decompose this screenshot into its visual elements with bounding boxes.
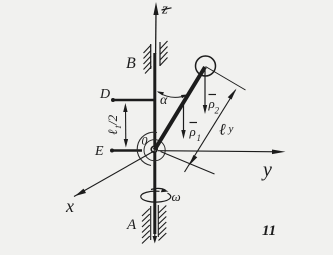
svg-text:/2: /2 xyxy=(105,114,120,126)
bearing B left wall xyxy=(150,44,152,69)
y-axis xyxy=(158,150,286,155)
pivot outer arc xyxy=(137,132,157,165)
vector rho1 xyxy=(181,101,185,139)
rod OE (thick horizontal at E) xyxy=(110,149,142,153)
extension line from O xyxy=(161,152,215,175)
figure number 11 xyxy=(262,223,276,239)
label z xyxy=(161,2,172,18)
dimension l1/2 vertical double arrow xyxy=(123,103,128,148)
label x xyxy=(65,196,74,216)
svg-text:A: A xyxy=(126,217,137,233)
rod OD (thick horizontal at D) xyxy=(111,98,156,102)
label A xyxy=(126,217,137,233)
bearing A left hatching xyxy=(142,209,150,244)
svg-text:ρ: ρ xyxy=(189,124,196,139)
label E xyxy=(94,144,104,159)
bearing B right wall xyxy=(159,42,161,66)
bearing A right hatching xyxy=(159,206,167,241)
svg-text:B: B xyxy=(126,55,136,72)
bearing A right sleeve line xyxy=(157,205,159,237)
svg-text:1: 1 xyxy=(197,133,202,143)
shaft AB (thick vertical) xyxy=(153,53,156,234)
omega arrow hook xyxy=(151,188,169,192)
svg-text:2: 2 xyxy=(215,106,220,116)
bearing B right hatching xyxy=(160,41,168,66)
label l1 (diagonal dimension) xyxy=(219,122,234,139)
label rho1 with bar xyxy=(189,123,202,144)
bearing B left hatching xyxy=(144,45,152,74)
label B xyxy=(126,55,136,72)
svg-text:x: x xyxy=(65,196,74,216)
omega rotation ellipse xyxy=(141,191,171,202)
z-axis arrowhead xyxy=(153,2,158,15)
svg-text:ω: ω xyxy=(172,189,181,204)
label O xyxy=(142,134,148,148)
angle alpha arc with arrows xyxy=(157,91,189,98)
bearing A left sleeve line xyxy=(150,206,152,240)
svg-text:y: y xyxy=(228,123,234,135)
label rho2 with bar xyxy=(208,95,220,116)
svg-text:D: D xyxy=(99,87,110,102)
pendulum rod O to ball xyxy=(155,67,206,150)
pivot middle circle xyxy=(144,140,165,161)
dimension line l1 (diagonal, two arrows) xyxy=(185,89,237,173)
vector rho2 xyxy=(203,70,207,114)
extension line from ball xyxy=(206,67,246,91)
svg-text:ℓ: ℓ xyxy=(219,122,226,139)
svg-text:0: 0 xyxy=(142,134,148,148)
z-axis thin line above shaft xyxy=(155,12,157,54)
label D xyxy=(99,87,110,102)
label omega xyxy=(172,189,181,204)
axis tail below bearing A with down arrow xyxy=(153,234,158,244)
pivot pin circle O xyxy=(151,146,157,152)
label l1/2 (rotated) xyxy=(105,114,123,135)
x-axis xyxy=(74,151,155,197)
svg-text:y: y xyxy=(261,159,272,181)
ball at rod end xyxy=(196,56,216,76)
svg-text:E: E xyxy=(94,144,104,159)
label y xyxy=(261,159,272,181)
svg-text:α: α xyxy=(160,93,168,108)
label alpha xyxy=(160,93,168,108)
svg-text:11: 11 xyxy=(262,223,276,239)
